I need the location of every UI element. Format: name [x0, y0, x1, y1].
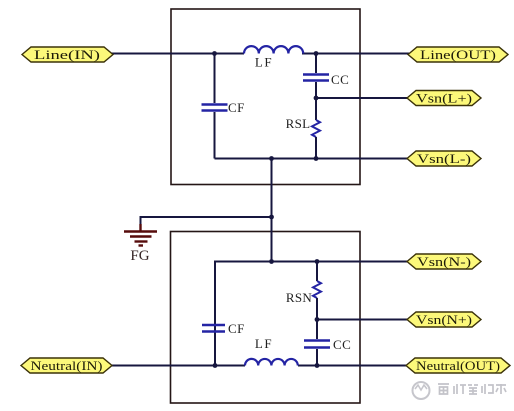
inductor LF (top) [244, 46, 303, 53]
junction CF bottom [213, 363, 218, 368]
svg-text:LF: LF [255, 55, 273, 70]
port Line(IN) [22, 47, 113, 62]
svg-text:RSL: RSL [286, 116, 311, 131]
capacitor CF (bottom) [202, 325, 225, 332]
svg-text:RSN: RSN [286, 290, 313, 305]
junction link wire bottom [269, 259, 274, 264]
resistor RSL [312, 120, 320, 137]
junction at Vsn(N+) node [315, 317, 320, 322]
svg-text:CF: CF [228, 100, 245, 115]
port Vsn(N-) [407, 254, 481, 269]
wire RSL upper stub [315, 98, 317, 120]
wire CF vertical lower [214, 112, 216, 159]
wire Line(IN) to LF (top horizontal, y=53.5) [111, 53, 244, 55]
svg-text:CF: CF [228, 321, 245, 336]
svg-text:LF: LF [255, 336, 273, 351]
wire RSN upper stub [316, 262, 318, 282]
junction CC bottom [315, 363, 320, 368]
wire to port Vsn(L+) [316, 97, 408, 99]
svg-text:Neutral(OUT): Neutral(OUT) [416, 359, 500, 373]
svg-text:Neutral(IN): Neutral(IN) [31, 359, 103, 373]
wire CC to Vsn(L+) node [315, 82, 317, 98]
inductor LF (bottom) [245, 359, 298, 366]
wire to port Vsn(N+) [317, 319, 408, 321]
sheet symbol box U_Line (top) [171, 9, 360, 185]
junction FG tee [269, 215, 274, 220]
wire CF vertical upper [214, 54, 216, 104]
ground FG (power ground symbol) [124, 224, 157, 246]
watermark text 硬件笔记本 [438, 384, 506, 394]
junction RSN top [315, 259, 320, 264]
port Vsn(L-) [407, 151, 481, 166]
wire RSN to Vsn(N+) node [316, 298, 318, 320]
wire Vsn(L-) horizontal [215, 158, 409, 160]
watermark logo circle [413, 382, 430, 399]
wire Vsn(N-) horizontal (bottom box top rail, y=261.5) [215, 262, 408, 366]
wire RSL lower stub [315, 137, 317, 159]
port Neutral(IN) [21, 358, 112, 373]
svg-text:CC: CC [331, 72, 349, 87]
wire link vertical (top box to bottom box) [271, 159, 273, 262]
capacitor CC (bottom) [304, 341, 330, 348]
svg-text:Line(OUT): Line(OUT) [420, 48, 496, 62]
sheet symbol box U_Neutral (bottom) [171, 232, 361, 404]
junction RSL bottom [314, 156, 319, 161]
svg-text:Vsn(N+): Vsn(N+) [416, 313, 472, 327]
wire Neutral horizontal [112, 365, 407, 367]
wire FG horizontal [141, 217, 272, 229]
wire CC(bottom) upper stub [316, 320, 318, 340]
svg-text:Line(IN): Line(IN) [34, 48, 100, 62]
junction at CC top [314, 51, 319, 56]
svg-text:Vsn(L+): Vsn(L+) [416, 92, 472, 106]
capacitor CC (top) [303, 75, 329, 81]
wire CC vertical upper [315, 54, 317, 74]
junction at Vsn(L+) node [314, 96, 319, 101]
capacitor CF (top) [202, 105, 228, 111]
svg-text:Vsn(N-): Vsn(N-) [417, 255, 471, 269]
svg-text:CC: CC [333, 337, 351, 352]
junction at CF top [212, 51, 217, 56]
port Vsn(N+) [407, 312, 481, 327]
wire CC(bottom) lower stub [316, 349, 318, 366]
wire LF to Line(OUT) [302, 53, 409, 55]
port Vsn(L+) [407, 91, 481, 106]
port Line(OUT) [408, 47, 508, 62]
port Neutral(OUT) [406, 358, 510, 373]
svg-text:FG: FG [130, 248, 149, 264]
svg-text:Vsn(L-): Vsn(L-) [417, 152, 471, 166]
junction link wire top [269, 156, 274, 161]
resistor RSN [313, 281, 321, 298]
